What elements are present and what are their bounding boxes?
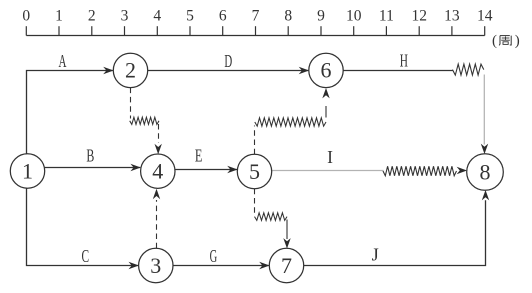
svg-text:D: D <box>224 53 232 72</box>
svg-text:10: 10 <box>346 8 362 25</box>
node 4 (event circle) <box>141 154 175 188</box>
activity E arrow (node 4 to node 5) <box>175 166 238 173</box>
dummy arrow 5 to 7: dashed drop from node 5 <box>254 189 256 213</box>
activity H line from node 6 <box>343 70 452 72</box>
svg-text:2: 2 <box>88 8 96 25</box>
svg-text:3: 3 <box>121 8 129 25</box>
svg-text:C: C <box>82 248 90 267</box>
node 6 (event circle) <box>309 53 343 87</box>
time scale ruler line (weeks) <box>26 35 484 37</box>
dummy arrow 5 to 7: solid drop into node 7 <box>283 220 290 249</box>
node 1 (event circle) <box>10 154 44 188</box>
node 7 (event circle) <box>269 248 303 282</box>
svg-text:12: 12 <box>411 8 427 25</box>
svg-text:(: ( <box>492 33 497 49</box>
svg-text:1: 1 <box>22 158 33 183</box>
svg-text:6: 6 <box>219 8 227 25</box>
label A <box>59 53 67 72</box>
activity G arrow (node 3 to node 7) <box>173 262 270 269</box>
activity D arrow (node 2 to node 6) <box>148 67 309 74</box>
node 8 (event circle) <box>467 154 504 191</box>
svg-text:H: H <box>400 52 408 71</box>
svg-text:14: 14 <box>477 8 493 25</box>
node 5 (event circle) <box>237 154 271 188</box>
svg-text:13: 13 <box>444 8 460 25</box>
activity H gray vertical drop to node 8 <box>481 75 488 155</box>
label G <box>210 247 218 266</box>
label J <box>372 245 379 265</box>
dummy arrow 5 to 6: wavy free float segment <box>255 118 326 126</box>
svg-text:4: 4 <box>152 159 163 184</box>
svg-text:4: 4 <box>153 8 161 25</box>
svg-text:I: I <box>327 147 333 167</box>
ruler tick marks 0..14 <box>26 26 484 35</box>
svg-text:3: 3 <box>150 253 161 278</box>
label B <box>86 147 94 166</box>
dummy arrow 5 to 7: wavy free float segment <box>255 213 288 221</box>
activity H free float wavy line <box>453 64 484 75</box>
dummy arrow 2 to 4: dashed drop from node 2 <box>130 88 132 119</box>
activity C arrow (node 1 down then right to node 3) <box>27 188 139 269</box>
activity I gray line from node 5 <box>272 170 384 172</box>
svg-text:E: E <box>195 147 202 166</box>
label H <box>400 52 408 71</box>
svg-text:5: 5 <box>186 8 194 25</box>
label C <box>82 248 90 267</box>
svg-text:7: 7 <box>252 8 260 25</box>
dummy arrow 2 to 4: dashed drop into node 4 <box>155 124 162 154</box>
label D <box>224 53 232 72</box>
unit label (zhou = week) <box>492 33 520 49</box>
svg-text:G: G <box>210 247 218 266</box>
svg-text:1: 1 <box>55 8 63 25</box>
svg-text:8: 8 <box>480 159 491 184</box>
activity A arrow (node 1 up then right to node 2) <box>27 67 114 154</box>
svg-text:2: 2 <box>125 58 136 83</box>
label E <box>195 147 202 166</box>
svg-text:B: B <box>86 147 94 166</box>
svg-text:J: J <box>372 245 379 265</box>
dummy arrow 5 to 6: dashed rise into node 6 <box>322 88 329 118</box>
label I <box>327 147 333 167</box>
svg-text:5: 5 <box>249 159 260 184</box>
dummy arrow 2 to 4: wavy free float segment <box>130 117 159 124</box>
ruler week numbers 0..14 <box>22 8 492 25</box>
activity J arrow (node 7 right then up into node 8) <box>304 190 490 266</box>
activity I free float wavy line into node 8 <box>383 166 467 176</box>
svg-text:): ) <box>515 33 520 49</box>
dummy arrow 5 to 6: dashed rise from node 5 <box>254 126 256 155</box>
svg-text:11: 11 <box>379 8 394 25</box>
node 2 (event circle) <box>113 53 147 87</box>
svg-text:7: 7 <box>281 253 292 278</box>
svg-text:0: 0 <box>22 8 30 25</box>
svg-text:9: 9 <box>317 8 325 25</box>
node 3 (event circle) <box>139 248 173 282</box>
svg-text:8: 8 <box>284 8 292 25</box>
activity B arrow (node 1 to node 4) <box>44 164 141 171</box>
svg-text:6: 6 <box>321 58 332 83</box>
svg-text:A: A <box>59 53 67 72</box>
dummy arrow 3 to 4: dashed vertical up into node 4 <box>153 189 160 249</box>
